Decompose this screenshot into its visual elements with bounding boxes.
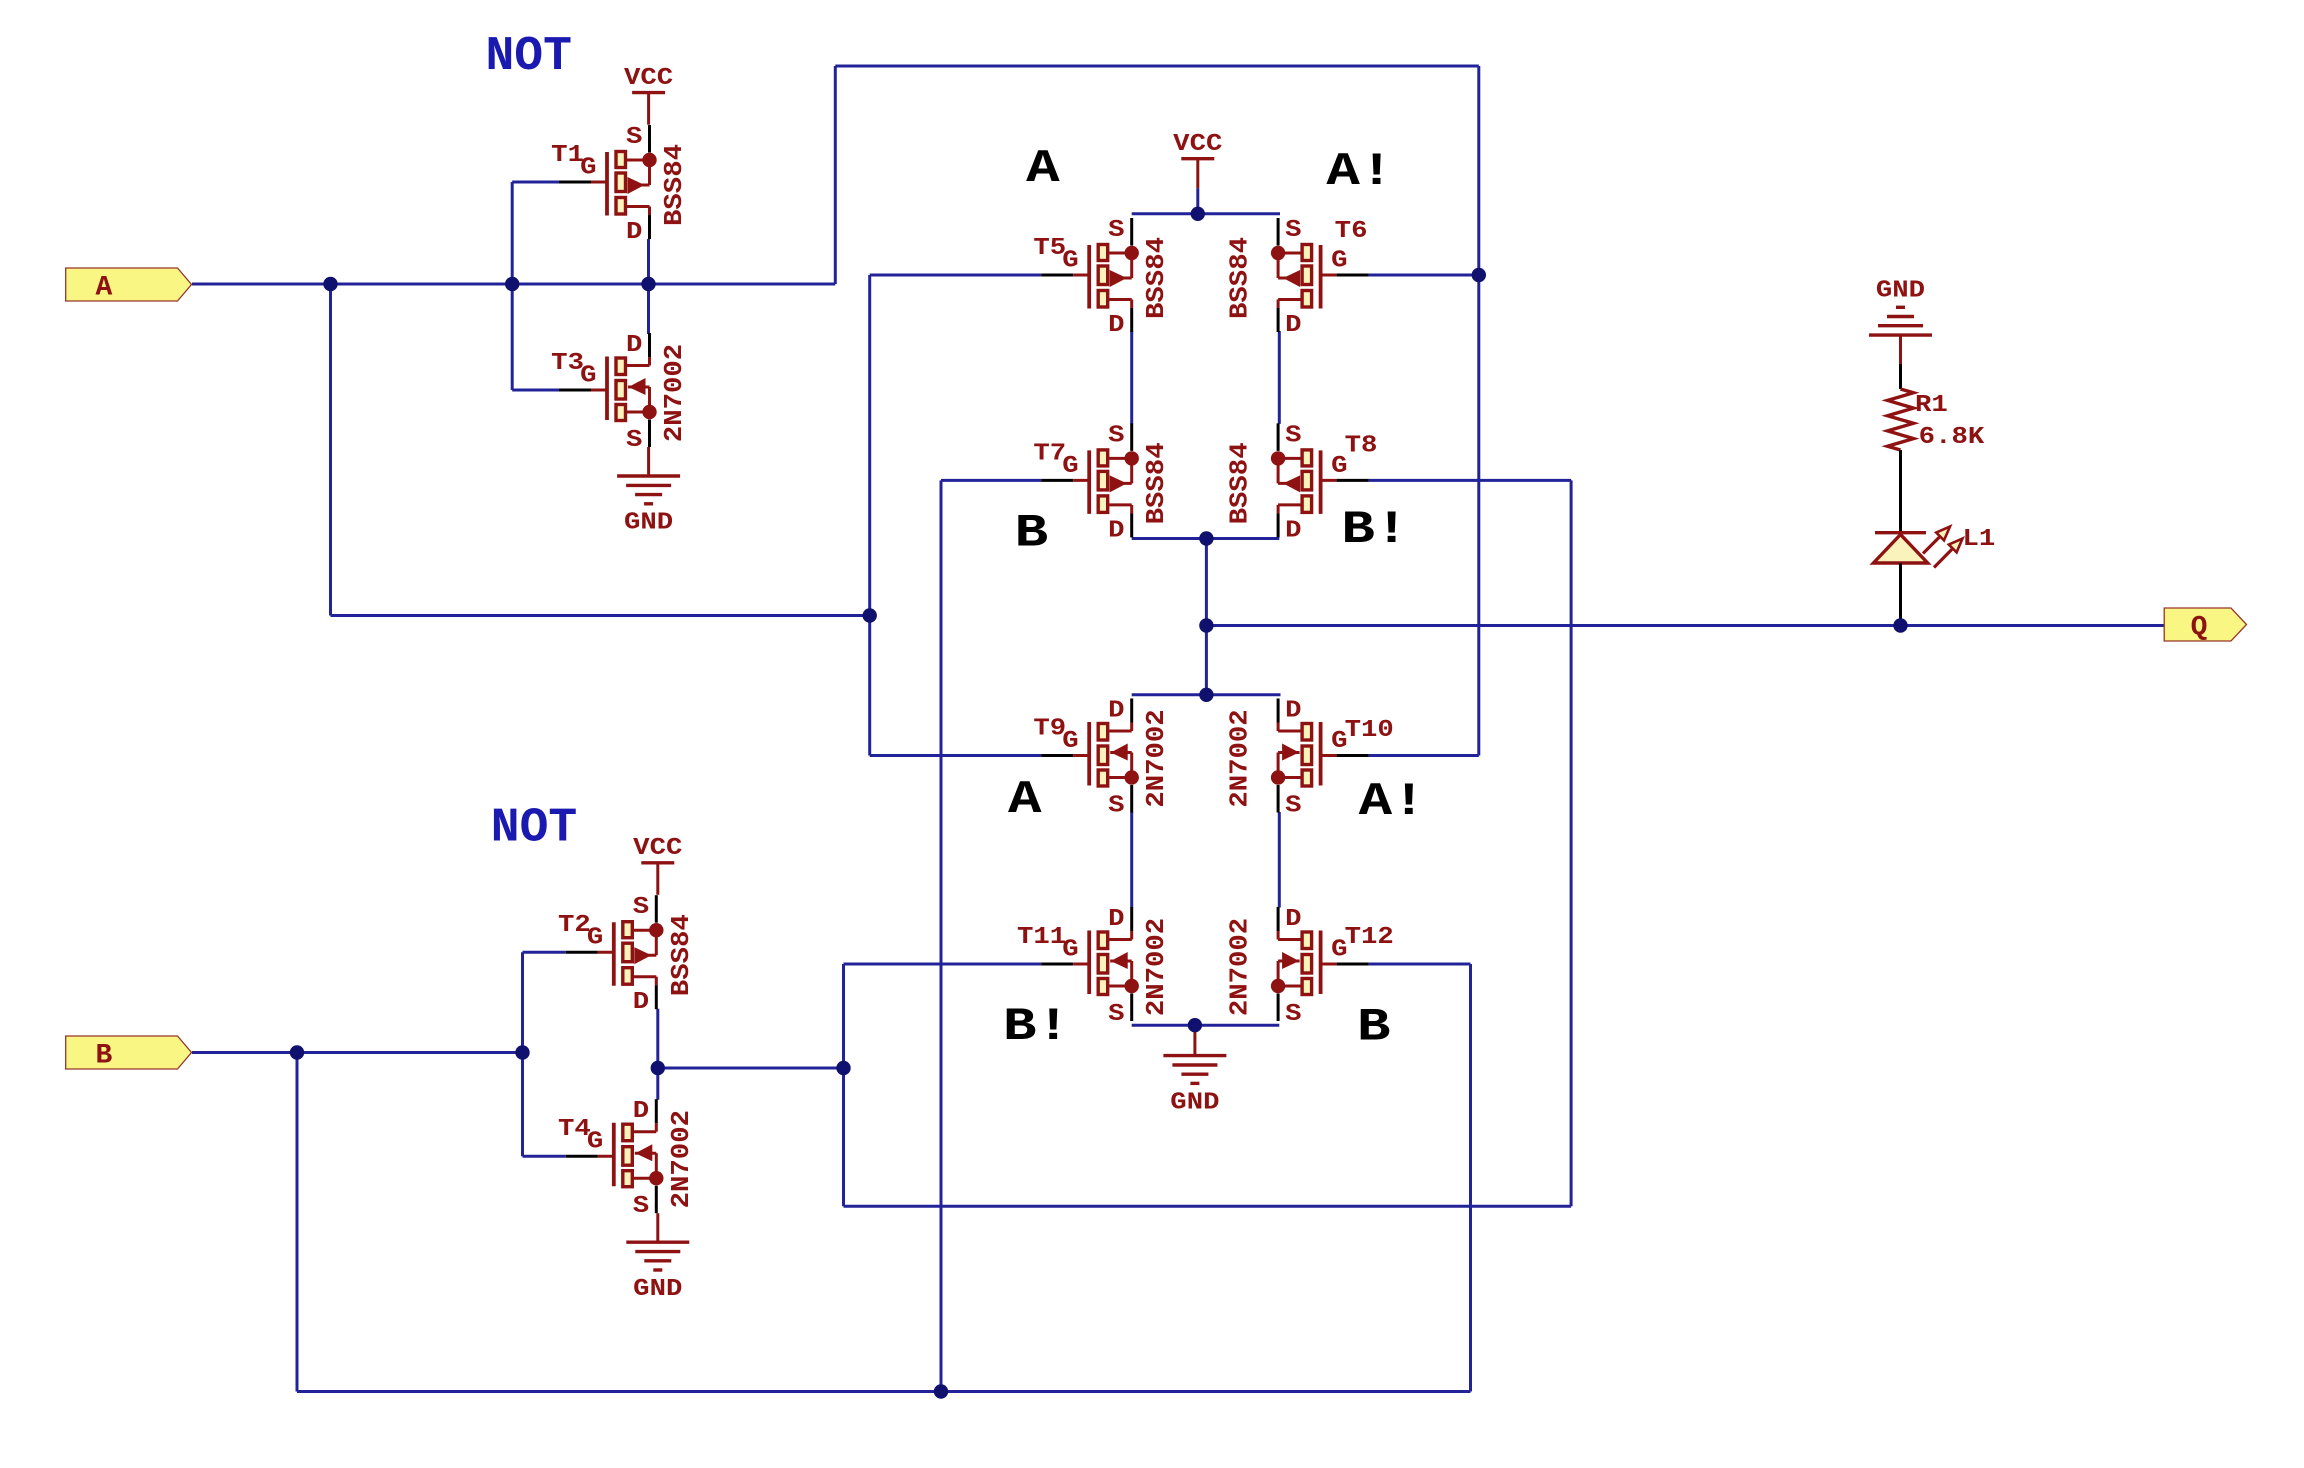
- wire net A! riser up: [834, 66, 837, 284]
- wire net Q output run: [1206, 624, 2164, 627]
- svg-text:D: D: [1285, 906, 1301, 933]
- svg-text:D: D: [1108, 906, 1124, 933]
- svg-text:A: A: [1026, 143, 1060, 195]
- wire net B left vertical: [296, 1053, 299, 1392]
- port A: [66, 268, 192, 301]
- wire T6-T8 link: [1278, 331, 1281, 424]
- node NMOS drain rail / Q: [1199, 688, 1213, 702]
- wire net A horizontal run: [331, 614, 870, 617]
- ground GND (NMOS source rail): [1163, 1056, 1226, 1117]
- node PMOS drain rail / Q: [1199, 531, 1213, 545]
- svg-text:T5: T5: [1033, 235, 1066, 262]
- svg-text:G: G: [1062, 937, 1078, 964]
- ground GND pin (T3 source): [647, 447, 650, 476]
- wire NMOS drain rail: [1132, 693, 1281, 696]
- svg-text:BSS84: BSS84: [1225, 442, 1255, 524]
- wire VCC rail of pass gates: [1132, 212, 1280, 215]
- svg-text:D: D: [1108, 698, 1124, 725]
- power flag VCC (above T1): [624, 65, 673, 125]
- power flag VCC (pass-gate rail): [1173, 131, 1222, 188]
- svg-text:G: G: [1062, 248, 1078, 275]
- node A! / T6 gate junction: [1472, 268, 1486, 282]
- wire NOT-B gate riser: [521, 952, 524, 1156]
- svg-text:Q: Q: [2191, 613, 2208, 644]
- node A input / down-run junction: [323, 277, 337, 291]
- svg-text:D: D: [1285, 517, 1301, 544]
- svg-text:NOT: NOT: [485, 30, 571, 84]
- transistor T1 BSS84: [551, 124, 689, 246]
- node NOT-A output: [641, 277, 655, 291]
- transistor T5 BSS84: [1033, 217, 1171, 339]
- svg-text:S: S: [626, 427, 642, 454]
- wire PMOS drain rail: [1132, 537, 1280, 540]
- svg-text:6.8K: 6.8K: [1919, 424, 1985, 451]
- svg-text:T10: T10: [1345, 717, 1394, 744]
- transistor T9 2N7002: [1033, 698, 1171, 820]
- svg-text:B: B: [95, 1041, 112, 1072]
- wire T9-T11 link: [1130, 812, 1133, 908]
- svg-text:S: S: [633, 1193, 649, 1220]
- svg-text:S: S: [1285, 793, 1301, 820]
- ground GND (below T3): [617, 476, 680, 537]
- svg-text:G: G: [1331, 248, 1347, 275]
- wire net A! to T6 gate: [1369, 274, 1479, 277]
- ground GND pin (T4 source): [656, 1213, 659, 1242]
- wire net A down from input: [329, 284, 332, 616]
- port B: [66, 1036, 192, 1069]
- svg-text:2N7002: 2N7002: [659, 344, 689, 442]
- wire to T4 gate: [523, 1155, 566, 1158]
- wire net B! bottom run: [844, 1205, 1572, 1208]
- svg-text:G: G: [1331, 453, 1347, 480]
- wire NOT-A gate riser: [511, 182, 514, 390]
- wire net A! to T10 gate: [1369, 754, 1479, 757]
- svg-text:T1: T1: [551, 142, 584, 169]
- svg-text:S: S: [626, 124, 642, 151]
- svg-text:G: G: [587, 925, 603, 952]
- svg-text:T7: T7: [1033, 440, 1066, 467]
- svg-text:S: S: [1108, 793, 1124, 820]
- transistor T3 2N7002: [551, 332, 689, 454]
- svg-text:G: G: [1331, 937, 1347, 964]
- svg-text:S: S: [1285, 217, 1301, 244]
- node NMOS source rail / GND: [1188, 1018, 1202, 1032]
- svg-text:T12: T12: [1345, 924, 1394, 951]
- wire net A to T9 gate: [870, 754, 1041, 757]
- svg-text:2N7002: 2N7002: [1225, 709, 1255, 807]
- svg-text:D: D: [633, 989, 649, 1016]
- svg-text:B!: B!: [1341, 504, 1408, 556]
- node NOT-B output: [651, 1061, 665, 1075]
- svg-text:T4: T4: [558, 1116, 591, 1143]
- svg-text:D: D: [1108, 312, 1124, 339]
- wire net B! to T8 gate: [1369, 479, 1572, 482]
- transistor T8 BSS84: [1225, 422, 1378, 544]
- transistor T2 BSS84: [558, 894, 696, 1016]
- node LED / Q junction: [1893, 618, 1907, 632]
- svg-text:T8: T8: [1345, 432, 1378, 459]
- svg-text:VCC: VCC: [1173, 131, 1222, 158]
- svg-text:GND: GND: [1170, 1089, 1219, 1116]
- svg-text:BSS84: BSS84: [659, 144, 689, 226]
- svg-text:B: B: [1015, 508, 1048, 560]
- svg-text:VCC: VCC: [633, 835, 682, 862]
- node A gate riser junction: [505, 277, 519, 291]
- svg-text:S: S: [1285, 422, 1301, 449]
- svg-text:T6: T6: [1335, 218, 1368, 245]
- transistor T7 BSS84: [1033, 422, 1171, 544]
- svg-text:A: A: [1008, 774, 1042, 826]
- svg-text:B: B: [1357, 1001, 1391, 1053]
- svg-text:T9: T9: [1033, 716, 1066, 743]
- wire net B! right vertical: [1570, 480, 1573, 1206]
- svg-text:2N7002: 2N7002: [666, 1110, 696, 1208]
- port Q: [2164, 608, 2246, 641]
- wire R1 to LED (pin): [1899, 450, 1902, 532]
- wire net B right vertical: [1469, 964, 1472, 1392]
- transistor T4 2N7002: [558, 1098, 696, 1220]
- svg-text:S: S: [1285, 1001, 1301, 1028]
- svg-text:L1: L1: [1963, 526, 1996, 553]
- svg-text:S: S: [1108, 217, 1124, 244]
- svg-text:G: G: [587, 1129, 603, 1156]
- transistor T11 2N7002: [1017, 906, 1171, 1028]
- wire net B to T12 gate: [1369, 963, 1471, 966]
- wire net B to T7 gate: [941, 479, 1041, 482]
- svg-text:D: D: [1285, 312, 1301, 339]
- node B vertical / bottom run junction: [934, 1384, 948, 1398]
- node VCC rail junction: [1191, 207, 1205, 221]
- wire net A! top run: [835, 65, 1479, 68]
- wire net A! right vertical: [1477, 66, 1480, 756]
- node B input / down-run junction: [290, 1045, 304, 1059]
- svg-text:S: S: [1108, 1001, 1124, 1028]
- svg-text:D: D: [626, 219, 642, 246]
- svg-text:2N7002: 2N7002: [1141, 709, 1171, 807]
- svg-text:GND: GND: [633, 1276, 682, 1303]
- svg-text:BSS84: BSS84: [666, 914, 696, 996]
- node B gate riser junction: [515, 1045, 529, 1059]
- svg-text:G: G: [580, 155, 596, 182]
- wire net B bottom run: [297, 1390, 1471, 1393]
- transistor T12 2N7002: [1225, 906, 1394, 1028]
- svg-text:T11: T11: [1017, 924, 1066, 951]
- svg-text:D: D: [626, 332, 642, 359]
- wire net A to T5 gate: [870, 274, 1041, 277]
- svg-text:2N7002: 2N7002: [1141, 918, 1171, 1016]
- svg-text:S: S: [633, 894, 649, 921]
- wire LED cathode down: [1899, 563, 1902, 625]
- svg-text:R1: R1: [1915, 392, 1948, 419]
- wire to T1 gate: [512, 181, 559, 184]
- wire NOT-B output node vertical: [656, 1009, 659, 1100]
- wire net A gates vertical: [868, 275, 871, 756]
- svg-text:T2: T2: [558, 912, 591, 939]
- LED L1: [1873, 526, 1995, 568]
- svg-text:D: D: [1285, 698, 1301, 725]
- svg-text:BSS84: BSS84: [1141, 442, 1171, 524]
- svg-text:BSS84: BSS84: [1225, 237, 1255, 319]
- wire NOT-A output node vertical: [647, 239, 650, 334]
- transistor T10 2N7002: [1225, 698, 1394, 820]
- svg-text:G: G: [1062, 728, 1078, 755]
- wire net B long vertical: [940, 480, 943, 1391]
- svg-text:GND: GND: [1876, 278, 1925, 305]
- node Q output junction: [1199, 618, 1213, 632]
- svg-text:G: G: [1062, 453, 1078, 480]
- svg-text:G: G: [1331, 728, 1347, 755]
- ground GND stub (NMOS rail): [1193, 1025, 1196, 1055]
- resistor R1 6.8K: [1888, 389, 1914, 450]
- wire to T2 gate: [523, 951, 566, 954]
- wire NOT-B output run: [658, 1067, 844, 1070]
- node A run / gates vertical junction: [863, 608, 877, 622]
- svg-text:GND: GND: [624, 510, 673, 537]
- svg-text:A!: A!: [1359, 776, 1426, 828]
- ground GND (top of R1, inverted): [1869, 278, 1932, 336]
- wire VCC stub: [1196, 188, 1199, 214]
- svg-text:A: A: [95, 273, 112, 304]
- svg-text:T3: T3: [551, 350, 584, 377]
- wire net B! to T11 gate: [844, 963, 1042, 966]
- wire T5-T7 link: [1130, 331, 1133, 424]
- svg-text:NOT: NOT: [491, 802, 577, 856]
- power flag VCC (above T2): [633, 835, 682, 895]
- wire net B input row: [192, 1051, 523, 1054]
- svg-text:A!: A!: [1326, 146, 1393, 198]
- svg-text:S: S: [1108, 422, 1124, 449]
- svg-text:B!: B!: [1003, 1001, 1070, 1053]
- wire net A input row: [192, 283, 835, 286]
- wire T10-T12 link: [1278, 812, 1281, 908]
- svg-text:G: G: [580, 363, 596, 390]
- svg-text:2N7002: 2N7002: [1225, 918, 1255, 1016]
- wire net B! left vertical: [842, 964, 845, 1206]
- ground GND pin (to R1): [1899, 335, 1902, 364]
- transistor T6 BSS84: [1225, 217, 1369, 339]
- svg-text:BSS84: BSS84: [1141, 237, 1171, 319]
- wire NMOS source rail: [1132, 1024, 1280, 1027]
- wire to T3 gate: [512, 389, 559, 392]
- svg-text:D: D: [633, 1098, 649, 1125]
- svg-text:D: D: [1108, 517, 1124, 544]
- ground GND (below T4): [626, 1242, 689, 1303]
- wire net Q vertical: [1205, 539, 1208, 695]
- svg-text:VCC: VCC: [624, 65, 673, 92]
- node NOT-B output / B! vertical junction: [836, 1061, 850, 1075]
